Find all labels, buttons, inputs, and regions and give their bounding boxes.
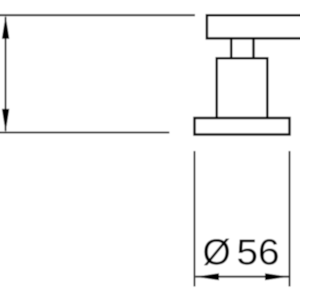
svg-text:56: 56 xyxy=(237,232,280,273)
svg-text:Ø: Ø xyxy=(203,232,231,273)
